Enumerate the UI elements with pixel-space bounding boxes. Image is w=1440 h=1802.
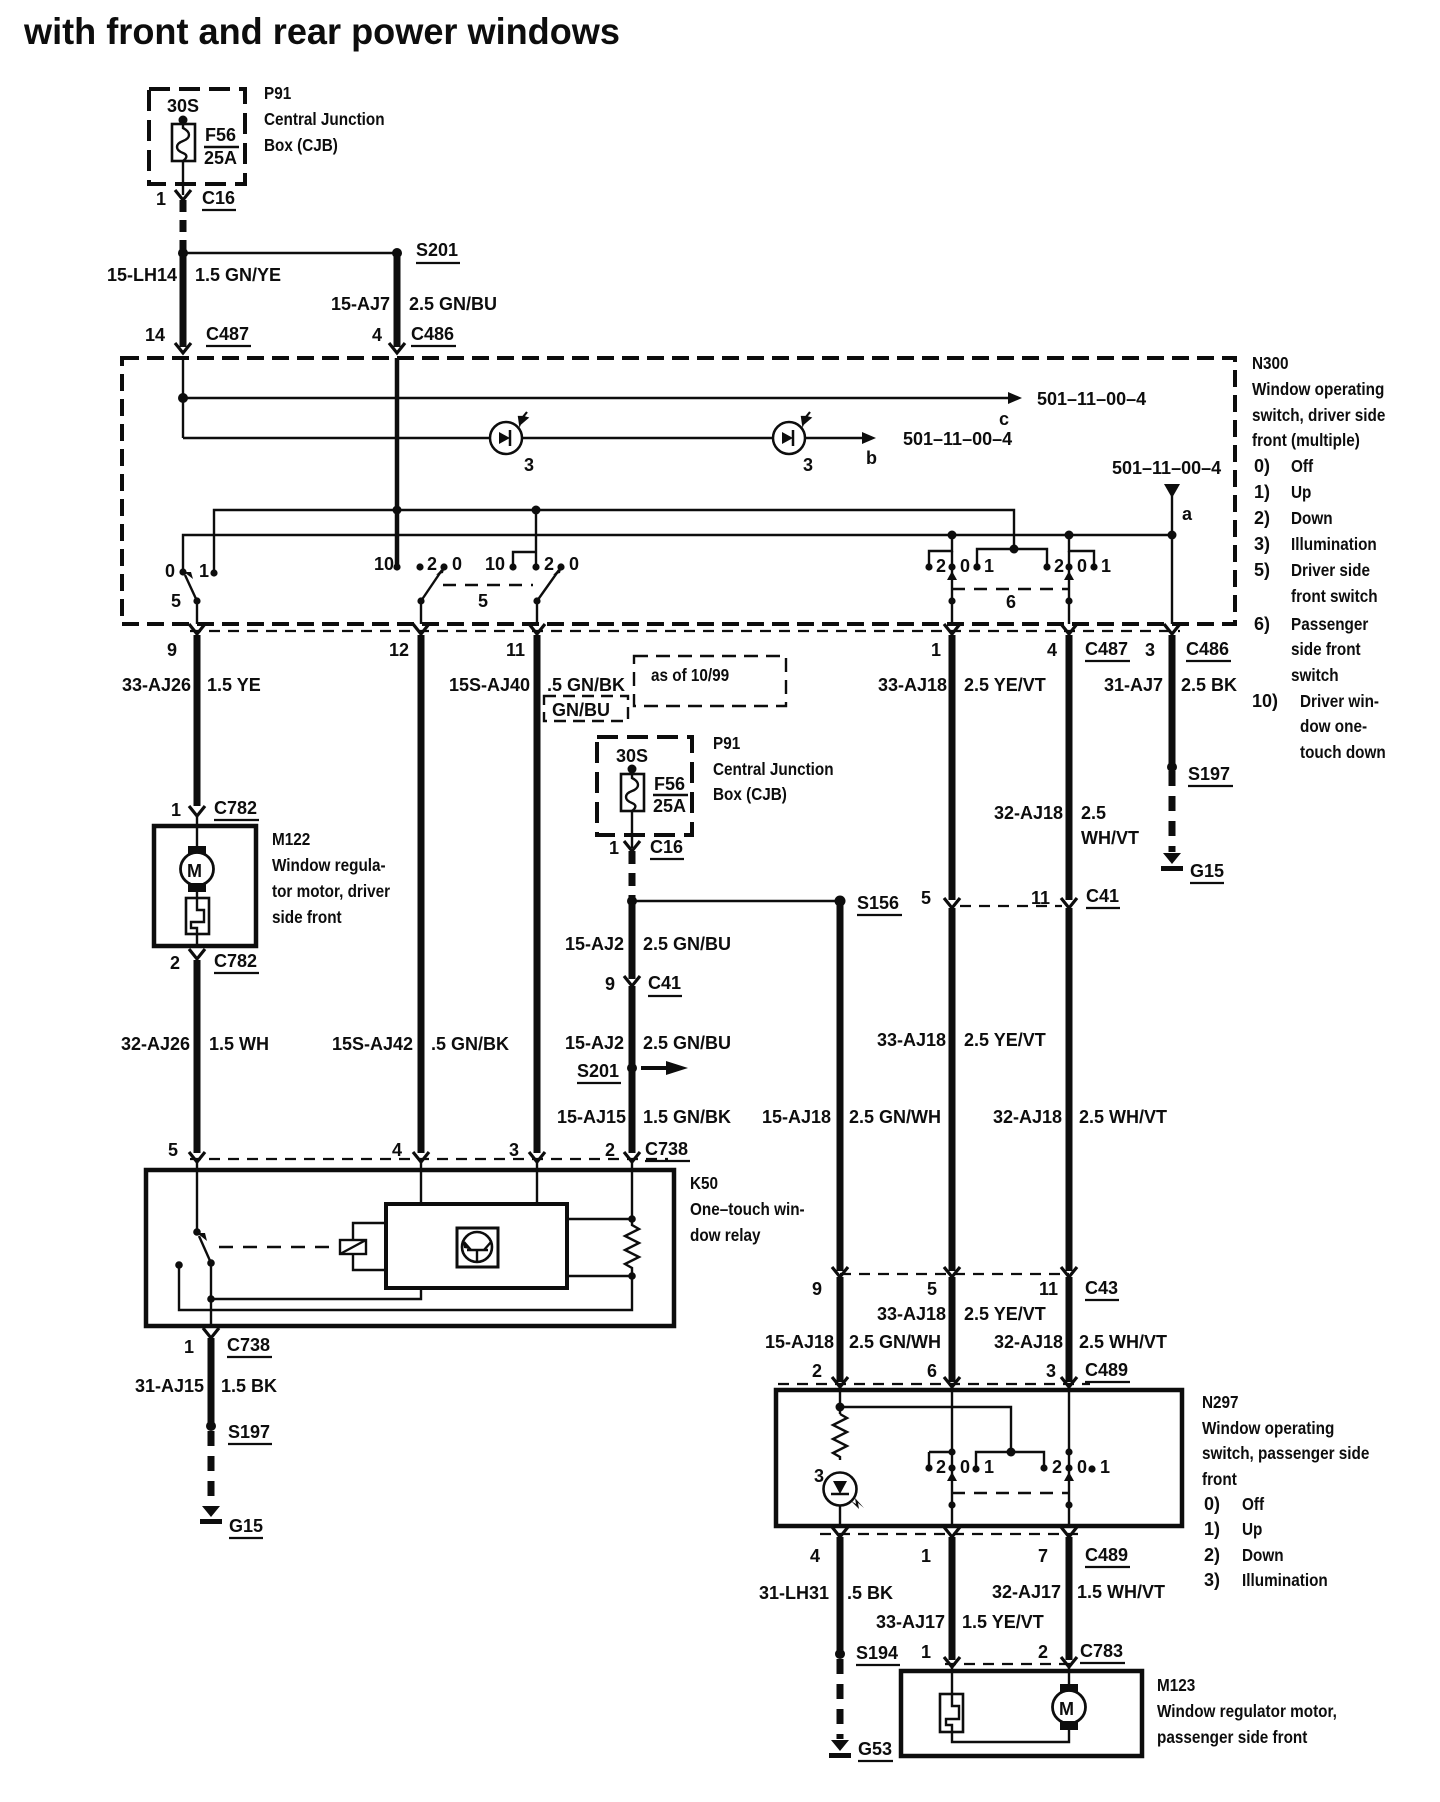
svg-text:11: 11 bbox=[506, 640, 525, 660]
svg-text:1.5 WH/VT: 1.5 WH/VT bbox=[1077, 1582, 1165, 1602]
svg-text:2.5 GN/BU: 2.5 GN/BU bbox=[643, 934, 731, 954]
svg-text:2: 2 bbox=[170, 953, 180, 973]
dashed link 6 passenger switch bbox=[952, 588, 1069, 590]
svg-text:C782: C782 bbox=[214, 798, 257, 818]
connector C43 row bbox=[840, 1273, 1069, 1275]
wire .5 GN/BK pin11 bbox=[534, 635, 541, 1153]
svg-text:1.5 GN/BK: 1.5 GN/BK bbox=[643, 1107, 731, 1127]
wire bus A to arrow c bbox=[183, 397, 1008, 399]
svg-text:5: 5 bbox=[921, 888, 931, 908]
svg-text:10: 10 bbox=[485, 554, 505, 574]
svg-text:9: 9 bbox=[605, 974, 615, 994]
svg-text:.5 GN/BK: .5 GN/BK bbox=[547, 675, 625, 695]
svg-text:C41: C41 bbox=[1086, 886, 1119, 906]
svg-text:F56: F56 bbox=[654, 774, 685, 794]
wire 15-AJ2 2.5 GN/BU below C41 bbox=[629, 986, 636, 1153]
switch blade pin11 bbox=[537, 570, 559, 601]
wire pin3 C486 inside box bbox=[1171, 535, 1173, 624]
resistor (illumination) bbox=[833, 1414, 847, 1460]
svg-text:1: 1 bbox=[184, 1337, 194, 1357]
svg-text:2.5 WH/VT: 2.5 WH/VT bbox=[1079, 1332, 1167, 1352]
splice S156 bbox=[835, 896, 846, 907]
ground G15 (left) bbox=[200, 1506, 222, 1524]
wire relay pin 4 to module bbox=[420, 1162, 422, 1204]
wire 15-LH14 1.5 GN/YE bbox=[180, 253, 187, 347]
wire 31-LH31 .5 BK bbox=[837, 1537, 844, 1654]
svg-text:33-AJ18: 33-AJ18 bbox=[877, 1030, 946, 1050]
center bracket bbox=[976, 1452, 1044, 1469]
svg-text:15-AJ7: 15-AJ7 bbox=[331, 294, 390, 314]
svg-text:3): 3) bbox=[1204, 1570, 1220, 1590]
svg-text:32-AJ18: 32-AJ18 bbox=[994, 1332, 1063, 1352]
thermal limiter M123 bbox=[940, 1694, 963, 1732]
svg-text:0: 0 bbox=[569, 554, 579, 574]
svg-text:0: 0 bbox=[165, 561, 175, 581]
svg-text:as of 10/99: as of 10/99 bbox=[651, 665, 729, 685]
svg-text:2.5 GN/WH: 2.5 GN/WH bbox=[849, 1332, 941, 1352]
wire 32-AJ18 2.5 WH/VT below C43 bbox=[1066, 1277, 1073, 1382]
svg-text:C16: C16 bbox=[202, 188, 235, 208]
svg-text:Illumination: Illumination bbox=[1242, 1570, 1328, 1590]
svg-text:30S: 30S bbox=[167, 96, 199, 116]
node 30S feed dot bbox=[179, 116, 188, 125]
svg-text:14: 14 bbox=[145, 325, 165, 345]
wire bus B (illumination) to arrow b bbox=[183, 437, 862, 439]
svg-text:15-AJ2: 15-AJ2 bbox=[565, 934, 624, 954]
svg-text:15S-AJ42: 15S-AJ42 bbox=[332, 1034, 413, 1054]
svg-text:M: M bbox=[187, 861, 202, 881]
dashed link between switches bbox=[952, 1492, 1069, 1494]
svg-text:33-AJ18: 33-AJ18 bbox=[878, 675, 947, 695]
wire to splice S156 bbox=[632, 900, 840, 902]
svg-text:25A: 25A bbox=[204, 148, 237, 168]
svg-text:2.5 GN/WH: 2.5 GN/WH bbox=[849, 1107, 941, 1127]
wire 31-AJ7 2.5 BK pin3 bbox=[1169, 635, 1176, 767]
svg-text:Up: Up bbox=[1291, 482, 1311, 502]
svg-text:501–11–00–4: 501–11–00–4 bbox=[1037, 389, 1146, 409]
fuse box P91 Central Junction Box (top) bbox=[149, 89, 245, 184]
relay blade bbox=[199, 1236, 211, 1263]
wire into motor bbox=[196, 817, 198, 847]
svg-text:1): 1) bbox=[1254, 482, 1270, 502]
svg-text:C487: C487 bbox=[1085, 639, 1128, 659]
svg-text:1): 1) bbox=[1204, 1519, 1220, 1539]
junction dot bbox=[178, 248, 188, 258]
wire C486 pin4 into N300 to contact 10 bbox=[395, 358, 400, 567]
svg-text:2: 2 bbox=[605, 1140, 615, 1160]
svg-text:15-AJ18: 15-AJ18 bbox=[765, 1332, 834, 1352]
svg-text:S201: S201 bbox=[416, 240, 458, 260]
wire C16 to splice (thick dashed) bbox=[180, 200, 187, 253]
svg-text:15-AJ15: 15-AJ15 bbox=[557, 1107, 626, 1127]
svg-text:1: 1 bbox=[984, 1457, 994, 1477]
connector C486 pin 3 bbox=[1164, 624, 1180, 634]
wire 33-AJ26 1.5 YE bbox=[194, 635, 201, 806]
svg-text:S201: S201 bbox=[577, 1061, 619, 1081]
relay module (inner box) bbox=[386, 1204, 567, 1288]
svg-text:6: 6 bbox=[927, 1361, 937, 1381]
svg-text:32-AJ18: 32-AJ18 bbox=[994, 803, 1063, 823]
node 30S dot bbox=[628, 765, 637, 774]
svg-text:GN/BU: GN/BU bbox=[552, 700, 610, 720]
svg-text:Central Junction: Central Junction bbox=[713, 759, 834, 779]
svg-text:33-AJ17: 33-AJ17 bbox=[876, 1612, 945, 1632]
svg-text:4: 4 bbox=[392, 1140, 402, 1160]
svg-text:touch down: touch down bbox=[1300, 742, 1386, 762]
svg-text:32-AJ17: 32-AJ17 bbox=[992, 1582, 1061, 1602]
svg-text:25A: 25A bbox=[653, 796, 686, 816]
wire N297 pin 2 bbox=[839, 1390, 841, 1414]
svg-text:15S-AJ40: 15S-AJ40 bbox=[449, 675, 530, 695]
blade pin4 bbox=[1068, 551, 1070, 624]
wire busA down to busB bbox=[182, 398, 184, 438]
svg-text:with front and rear power wind: with front and rear power windows bbox=[23, 11, 620, 52]
motor M123 symbol bbox=[1060, 1684, 1078, 1693]
svg-text:3: 3 bbox=[803, 455, 813, 475]
wire blade to pin 1 bbox=[210, 1299, 212, 1326]
fuse F56 25A (second) bbox=[621, 774, 644, 811]
svg-text:0: 0 bbox=[1077, 556, 1087, 576]
svg-text:C782: C782 bbox=[214, 951, 257, 971]
blade arrows bbox=[947, 1472, 957, 1481]
svg-text:30S: 30S bbox=[616, 746, 648, 766]
motor M122 window regulator driver side bbox=[154, 826, 256, 946]
node busD dots bbox=[948, 531, 957, 540]
svg-text:WH/VT: WH/VT bbox=[1081, 828, 1139, 848]
lamp LED 1 (illumination) bbox=[490, 412, 534, 475]
svg-text:2: 2 bbox=[1054, 556, 1064, 576]
wire bus D bbox=[183, 535, 1172, 572]
svg-text:2.5 YE/VT: 2.5 YE/VT bbox=[964, 675, 1046, 695]
svg-text:tor motor, driver: tor motor, driver bbox=[272, 881, 391, 901]
svg-text:6): 6) bbox=[1254, 614, 1270, 634]
svg-text:c: c bbox=[999, 409, 1009, 429]
svg-text:9: 9 bbox=[812, 1279, 822, 1299]
wire blade to module bbox=[210, 1263, 212, 1299]
wire pin2 to center bracket bbox=[840, 1407, 1011, 1452]
svg-text:1.5 WH: 1.5 WH bbox=[209, 1034, 269, 1054]
svg-text:5: 5 bbox=[171, 591, 181, 611]
wire S197 to G15 (thick dashed) bbox=[208, 1431, 215, 1505]
svg-text:11: 11 bbox=[1039, 1279, 1058, 1299]
svg-text:dow relay: dow relay bbox=[690, 1225, 761, 1245]
dashed link switch 5/10 bbox=[443, 584, 533, 586]
svg-text:3: 3 bbox=[1046, 1361, 1056, 1381]
wire 33-AJ18 2.5 YE/VT (below C41) bbox=[949, 908, 956, 1271]
wire 33-AJ18 2.5 YE/VT below C43 bbox=[949, 1277, 956, 1382]
svg-text:.5 BK: .5 BK bbox=[847, 1583, 893, 1603]
svg-text:33-AJ18: 33-AJ18 bbox=[877, 1304, 946, 1324]
svg-text:31-AJ15: 31-AJ15 bbox=[135, 1376, 204, 1396]
svg-text:side front: side front bbox=[272, 907, 342, 927]
svg-text:2.5 BK: 2.5 BK bbox=[1181, 675, 1237, 695]
wire junction to S201 bbox=[183, 252, 397, 254]
svg-text:31-LH31: 31-LH31 bbox=[759, 1583, 829, 1603]
svg-text:.5 GN/BK: .5 GN/BK bbox=[431, 1034, 509, 1054]
switch assembly N300 (dashed box) bbox=[122, 358, 1235, 624]
svg-text:N297: N297 bbox=[1202, 1392, 1239, 1412]
switch 5 blade bbox=[185, 575, 197, 601]
resistor R (one-touch timing) bbox=[625, 1219, 639, 1276]
switch passenger B contacts 2/0/1 bbox=[1040, 1464, 1047, 1471]
switch driver side (right group A) contacts 2/0/1 bbox=[929, 535, 952, 567]
svg-text:Window operating: Window operating bbox=[1252, 379, 1384, 399]
wire lamp to pin 4 bbox=[839, 1506, 841, 1526]
svg-text:front (multiple): front (multiple) bbox=[1252, 430, 1360, 450]
splice S201 bbox=[392, 248, 402, 258]
svg-text:C486: C486 bbox=[1186, 639, 1229, 659]
svg-text:3: 3 bbox=[814, 1466, 824, 1486]
switch passenger A contacts 2/0/1 bbox=[929, 1452, 952, 1468]
svg-text:2.5 GN/BU: 2.5 GN/BU bbox=[409, 294, 497, 314]
svg-text:2: 2 bbox=[427, 554, 437, 574]
svg-text:C486: C486 bbox=[411, 324, 454, 344]
svg-text:5: 5 bbox=[168, 1140, 178, 1160]
node busA junction bbox=[178, 393, 188, 403]
svg-text:9: 9 bbox=[167, 640, 177, 660]
svg-text:G15: G15 bbox=[1190, 861, 1224, 881]
connector row below N300 (thin dashed) bbox=[190, 630, 1180, 632]
wire 15S-AJ42 pin12 bbox=[418, 635, 425, 1153]
coil element bbox=[340, 1240, 366, 1254]
svg-text:Driver side: Driver side bbox=[1291, 560, 1370, 580]
svg-text:3: 3 bbox=[1145, 640, 1155, 660]
svg-text:switch, passenger side: switch, passenger side bbox=[1202, 1443, 1369, 1463]
svg-text:switch: switch bbox=[1291, 665, 1339, 685]
svg-text:5): 5) bbox=[1254, 560, 1270, 580]
svg-text:C43: C43 bbox=[1085, 1278, 1118, 1298]
svg-text:2.5 YE/VT: 2.5 YE/VT bbox=[964, 1030, 1046, 1050]
svg-text:31-AJ7: 31-AJ7 bbox=[1104, 675, 1163, 695]
svg-text:2: 2 bbox=[544, 554, 554, 574]
junction dot bbox=[627, 896, 637, 906]
svg-text:5: 5 bbox=[478, 591, 488, 611]
svg-text:Box (CJB): Box (CJB) bbox=[264, 135, 338, 155]
svg-text:11: 11 bbox=[1031, 888, 1050, 908]
svg-text:4: 4 bbox=[810, 1546, 820, 1566]
svg-text:Off: Off bbox=[1291, 456, 1313, 476]
svg-text:2: 2 bbox=[936, 556, 946, 576]
svg-text:C16: C16 bbox=[650, 837, 683, 857]
wire N297 pin 6 bbox=[951, 1390, 953, 1526]
svg-text:C738: C738 bbox=[227, 1335, 270, 1355]
svg-text:10: 10 bbox=[374, 554, 394, 574]
svg-text:Window operating: Window operating bbox=[1202, 1418, 1334, 1438]
note box: GN/BU bbox=[544, 696, 628, 721]
svg-text:1: 1 bbox=[199, 561, 209, 581]
svg-text:2): 2) bbox=[1254, 508, 1270, 528]
connector C487 pin 11 bbox=[529, 624, 545, 634]
svg-text:switch, driver side: switch, driver side bbox=[1252, 405, 1385, 425]
svg-text:K50: K50 bbox=[690, 1173, 718, 1193]
svg-text:0: 0 bbox=[960, 1457, 970, 1477]
svg-text:One–touch win-: One–touch win- bbox=[690, 1199, 805, 1219]
svg-text:2.5 YE/VT: 2.5 YE/VT bbox=[964, 1304, 1046, 1324]
svg-text:Central Junction: Central Junction bbox=[264, 109, 385, 129]
svg-text:2: 2 bbox=[1052, 1457, 1062, 1477]
svg-text:Down: Down bbox=[1291, 508, 1333, 528]
svg-text:0): 0) bbox=[1254, 456, 1270, 476]
wire 15-AJ18 2.5 GN/WH from S156 bbox=[837, 901, 844, 1271]
svg-text:Off: Off bbox=[1242, 1494, 1264, 1514]
svg-text:S197: S197 bbox=[1188, 764, 1230, 784]
svg-text:dow one-: dow one- bbox=[1300, 716, 1367, 736]
motor M123 window regulator passenger side (box) bbox=[901, 1671, 1142, 1756]
svg-text:0: 0 bbox=[452, 554, 462, 574]
svg-text:C489: C489 bbox=[1085, 1545, 1128, 1565]
svg-text:2: 2 bbox=[1038, 1642, 1048, 1662]
svg-text:side front: side front bbox=[1291, 639, 1361, 659]
svg-text:1: 1 bbox=[921, 1642, 931, 1662]
wire 33-AJ18 2.5 YE/VT pin1 bbox=[949, 635, 956, 900]
svg-text:1: 1 bbox=[1100, 1457, 1110, 1477]
connector C489 row (bottom of N297) bbox=[820, 1533, 1085, 1535]
svg-text:b: b bbox=[866, 448, 877, 468]
wire thermal to motor bbox=[952, 1730, 1069, 1742]
svg-text:G53: G53 bbox=[858, 1739, 892, 1759]
svg-text:1: 1 bbox=[931, 640, 941, 660]
wire 15-AJ7 2.5 GN/BU bbox=[394, 253, 401, 347]
svg-text:3): 3) bbox=[1254, 534, 1270, 554]
svg-text:7: 7 bbox=[1038, 1546, 1048, 1566]
splice S197 (left) bbox=[206, 1421, 216, 1431]
wire S194 to G53 (thick dashed) bbox=[837, 1659, 844, 1739]
wire module to resistor top bbox=[567, 1218, 632, 1220]
svg-text:5: 5 bbox=[927, 1279, 937, 1299]
splice S197 (right) bbox=[1167, 762, 1177, 772]
wire bus C (one-touch) bbox=[214, 510, 1014, 573]
relay NO contact bbox=[175, 1261, 183, 1269]
fuse box P91 Central Junction Box (second) bbox=[597, 737, 692, 835]
connector C487 pin 4 bbox=[1061, 624, 1077, 634]
svg-text:F56: F56 bbox=[205, 125, 236, 145]
svg-text:Illumination: Illumination bbox=[1291, 534, 1377, 554]
svg-text:12: 12 bbox=[389, 640, 409, 660]
wire 15-AJ2 2.5 GN/BU bbox=[629, 901, 636, 979]
connector C487 pin 12 bbox=[413, 624, 429, 634]
svg-text:1.5 GN/YE: 1.5 GN/YE bbox=[195, 265, 281, 285]
wire 33-AJ17 1.5 YE/VT bbox=[949, 1537, 956, 1660]
wire 32-AJ17 1.5 WH/VT bbox=[1066, 1537, 1073, 1660]
svg-text:1: 1 bbox=[156, 189, 166, 209]
svg-text:2.5 GN/BU: 2.5 GN/BU bbox=[643, 1033, 731, 1053]
svg-text:1.5 BK: 1.5 BK bbox=[221, 1376, 277, 1396]
ground G15 (right) bbox=[1161, 853, 1183, 871]
coil bracket to module bbox=[353, 1223, 386, 1270]
wire pin 1 to thermal limiter bbox=[951, 1667, 953, 1694]
svg-text:S156: S156 bbox=[857, 893, 899, 913]
svg-text:M122: M122 bbox=[272, 829, 310, 849]
svg-text:N300: N300 bbox=[1252, 353, 1289, 373]
svg-text:1: 1 bbox=[609, 838, 619, 858]
connector C487 pin 9 bbox=[189, 624, 205, 634]
svg-text:Up: Up bbox=[1242, 1519, 1262, 1539]
thermal limiter M122 bbox=[196, 892, 198, 898]
lamp LED 2 (illumination) bbox=[773, 412, 813, 475]
svg-text:4: 4 bbox=[372, 325, 382, 345]
svg-text:0): 0) bbox=[1204, 1494, 1220, 1514]
svg-text:1.5 YE: 1.5 YE bbox=[207, 675, 261, 695]
svg-text:Box (CJB): Box (CJB) bbox=[713, 784, 787, 804]
svg-text:501–11–00–4: 501–11–00–4 bbox=[903, 429, 1012, 449]
svg-text:32-AJ26: 32-AJ26 bbox=[121, 1034, 190, 1054]
svg-text:6: 6 bbox=[1006, 592, 1016, 612]
wire 32-AJ18 2.5 WH/VT pin4 bbox=[1066, 635, 1073, 900]
note box: as of 10/99 bbox=[634, 656, 786, 706]
svg-text:C489: C489 bbox=[1085, 1360, 1128, 1380]
svg-text:2.5: 2.5 bbox=[1081, 803, 1106, 823]
relay switch fixed contact bbox=[193, 1228, 201, 1236]
svg-text:10): 10) bbox=[1252, 691, 1278, 711]
svg-text:C41: C41 bbox=[648, 973, 681, 993]
splice S194 bbox=[835, 1649, 845, 1659]
svg-text:2.5 WH/VT: 2.5 WH/VT bbox=[1079, 1107, 1167, 1127]
motor M122 symbol bbox=[188, 846, 206, 855]
svg-text:Down: Down bbox=[1242, 1545, 1284, 1565]
node busC dots bbox=[393, 506, 402, 515]
transistor U1 in module bbox=[457, 1228, 498, 1267]
switch assembly N297 (box) bbox=[776, 1390, 1182, 1526]
svg-text:33-AJ26: 33-AJ26 bbox=[122, 675, 191, 695]
svg-text:2: 2 bbox=[812, 1361, 822, 1381]
fuse F56 25A bbox=[172, 124, 195, 161]
wire module to resistor bottom bbox=[567, 1275, 632, 1277]
svg-text:Window regulator motor,: Window regulator motor, bbox=[1157, 1701, 1337, 1721]
svg-text:0: 0 bbox=[960, 556, 970, 576]
wire S197 to G15 (thick dashed) bbox=[1169, 771, 1176, 852]
svg-text:15-LH14: 15-LH14 bbox=[107, 265, 177, 285]
svg-text:15-AJ18: 15-AJ18 bbox=[762, 1107, 831, 1127]
wire NO contact to resistor bottom bbox=[179, 1265, 632, 1310]
svg-text:3: 3 bbox=[509, 1140, 519, 1160]
wire 31-AJ15 1.5 BK bbox=[208, 1338, 215, 1426]
svg-text:P91: P91 bbox=[713, 733, 740, 753]
svg-text:C487: C487 bbox=[206, 324, 249, 344]
svg-text:501–11–00–4: 501–11–00–4 bbox=[1112, 458, 1221, 478]
svg-text:32-AJ18: 32-AJ18 bbox=[993, 1107, 1062, 1127]
relay coil (dashed actuator link) bbox=[219, 1246, 340, 1248]
switch passenger (right group B) contacts 2/0/1 bbox=[1043, 563, 1050, 570]
svg-text:2): 2) bbox=[1204, 1545, 1220, 1565]
wire relay pin 3 to module bbox=[536, 1162, 538, 1204]
wire 15-AJ18 2.5 GN/WH below C43 bbox=[837, 1277, 844, 1382]
switch blade pin12 bbox=[421, 570, 442, 601]
svg-text:P91: P91 bbox=[264, 83, 291, 103]
svg-text:M: M bbox=[1059, 1699, 1074, 1719]
wire a to busD bbox=[1171, 496, 1173, 535]
wire 32-AJ18 2.5 WH/VT (below C41) bbox=[1066, 908, 1073, 1271]
svg-text:1: 1 bbox=[171, 800, 181, 820]
ground G53 bbox=[829, 1740, 851, 1758]
connector C738 pin chevrons bbox=[189, 1152, 205, 1162]
blade pin1 bbox=[951, 551, 953, 624]
wire relay pin 5 bbox=[196, 1162, 198, 1232]
svg-text:front: front bbox=[1202, 1469, 1237, 1489]
svg-text:1: 1 bbox=[984, 556, 994, 576]
relay K50 one-touch window relay (box) bbox=[146, 1170, 674, 1326]
wire pin14 into N300 bbox=[182, 358, 184, 398]
svg-text:2: 2 bbox=[936, 1457, 946, 1477]
bracket busC to contacts bbox=[977, 549, 1047, 567]
wire pin 2 to motor bbox=[1068, 1667, 1070, 1684]
wire 32-AJ26 1.5 WH bbox=[194, 960, 201, 1153]
svg-text:S197: S197 bbox=[228, 1422, 270, 1442]
wire relay pin 2 bbox=[631, 1162, 633, 1219]
svg-text:1: 1 bbox=[1101, 556, 1111, 576]
svg-text:Window regula-: Window regula- bbox=[272, 855, 386, 875]
svg-text:1: 1 bbox=[921, 1546, 931, 1566]
svg-text:a: a bbox=[1182, 504, 1193, 524]
